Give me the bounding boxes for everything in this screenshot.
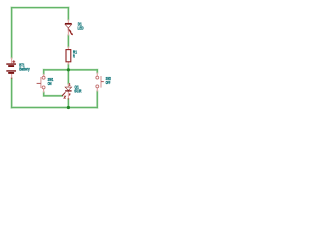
svg-text:LED: LED: [78, 25, 84, 30]
svg-text:SCR: SCR: [74, 88, 82, 93]
svg-text:ON: ON: [48, 81, 52, 86]
svg-text:OFF: OFF: [106, 80, 111, 85]
svg-text:Battery: Battery: [19, 66, 30, 71]
